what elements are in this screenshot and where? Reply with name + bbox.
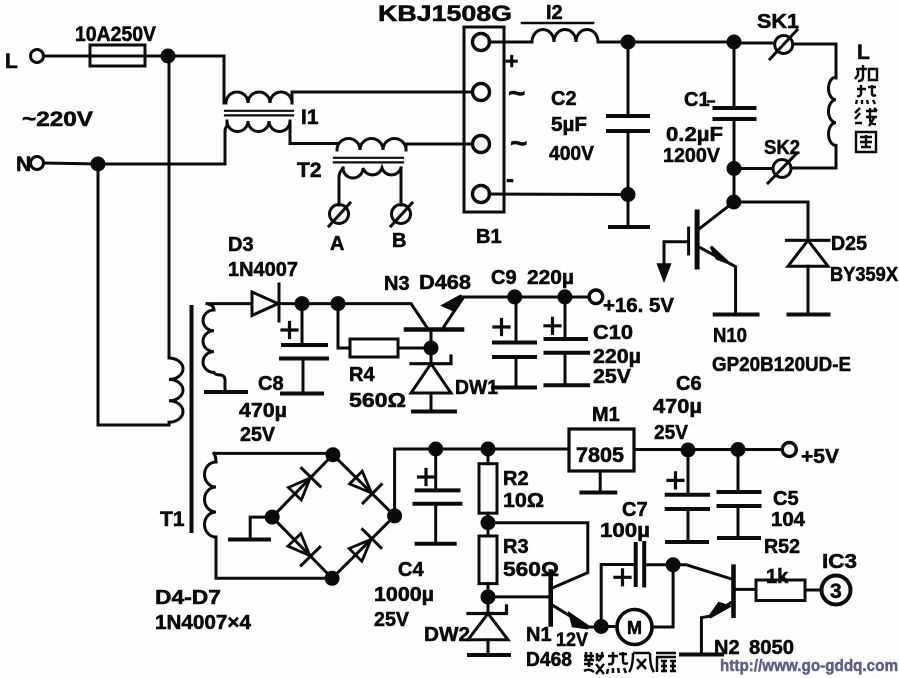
svg-text:10Ω: 10Ω bbox=[503, 490, 544, 512]
svg-text:C8: C8 bbox=[258, 373, 284, 395]
wire collector node to D25 bbox=[734, 202, 808, 240]
svg-text:BY359X: BY359X bbox=[830, 264, 899, 286]
svg-text:~: ~ bbox=[508, 77, 526, 110]
wire N junction down and right to T1 primary bottom bbox=[98, 164, 169, 425]
svg-text:IC3: IC3 bbox=[822, 551, 857, 573]
svg-text:D25: D25 bbox=[831, 233, 867, 255]
wire C1 node to SK1 bbox=[734, 42, 774, 45]
wire emitter to +16.5V rail bbox=[463, 296, 589, 299]
svg-text:470µ: 470µ bbox=[239, 400, 287, 422]
transformer T1 upper secondary winding bbox=[203, 304, 225, 389]
svg-text:N10: N10 bbox=[713, 325, 747, 347]
switch terminal SK2 bbox=[773, 160, 791, 178]
node bridge bottom bbox=[326, 572, 338, 584]
svg-text:T2: T2 bbox=[297, 159, 322, 182]
ground below C2 bbox=[627, 195, 630, 226]
svg-text:T1: T1 bbox=[160, 508, 185, 531]
node C8 top bbox=[296, 298, 308, 310]
node R2 top bbox=[482, 443, 494, 455]
svg-text:D4-D7: D4-D7 bbox=[155, 587, 221, 609]
node bridge right bbox=[389, 510, 401, 522]
svg-text:25V: 25V bbox=[240, 424, 276, 446]
svg-text:L: L bbox=[857, 41, 870, 64]
polarity plus of C6 bbox=[668, 473, 683, 488]
inductor I1 bottom winding bbox=[227, 121, 290, 132]
wire I2 to C2 node bbox=[598, 41, 628, 44]
wire C2 bottom to B1 minus bbox=[489, 193, 628, 197]
zener DW1 bbox=[430, 348, 433, 363]
svg-text:B: B bbox=[392, 230, 406, 252]
node fan bbox=[595, 621, 607, 633]
node C1 bottom / SK2 bbox=[728, 163, 740, 175]
wire SK2 to C1 bottom node bbox=[734, 167, 773, 170]
transistor N1 emitter with arrow bbox=[553, 605, 601, 627]
terminal B bbox=[392, 205, 411, 224]
fuse F 10A250V bbox=[90, 45, 145, 66]
terminal L bbox=[31, 50, 44, 63]
heating coil L bbox=[792, 77, 836, 168]
diode D25 BY359X bbox=[787, 239, 830, 242]
svg-text:~: ~ bbox=[510, 127, 528, 160]
terminal N bbox=[31, 157, 44, 170]
wire secondary bottom to bridge bottom bbox=[216, 577, 332, 580]
core T1 bbox=[190, 307, 194, 531]
node bridge top bbox=[327, 449, 339, 461]
node C4 bbox=[430, 443, 442, 455]
svg-text:C6: C6 bbox=[676, 373, 702, 395]
node C2 top bbox=[622, 36, 634, 48]
svg-text:M: M bbox=[627, 618, 642, 638]
svg-text:C1: C1 bbox=[684, 89, 710, 111]
node C7/N2 base bbox=[667, 559, 679, 571]
svg-text:12V: 12V bbox=[556, 630, 588, 651]
svg-text:1000µ: 1000µ bbox=[374, 584, 434, 606]
label cooling fan chinese bbox=[584, 652, 676, 674]
svg-text:1N4007: 1N4007 bbox=[228, 259, 298, 281]
terminal +5V bbox=[782, 443, 796, 457]
emitter rail bar of N10 bbox=[715, 313, 758, 317]
resistor R4 560ohm bbox=[350, 339, 398, 357]
svg-text:R52: R52 bbox=[764, 536, 800, 558]
resistor R2 10ohm bbox=[487, 449, 490, 464]
node R3/DW2/base bbox=[482, 591, 494, 603]
svg-text:N: N bbox=[16, 153, 31, 176]
transformer T2 bottom winding bbox=[343, 168, 401, 178]
node C2 bottom bbox=[622, 189, 634, 201]
svg-text:C2: C2 bbox=[551, 88, 577, 110]
svg-text:C5: C5 bbox=[773, 488, 799, 510]
svg-text:1200V: 1200V bbox=[663, 145, 721, 167]
svg-text:R2: R2 bbox=[503, 468, 529, 490]
svg-text:25V: 25V bbox=[374, 609, 410, 631]
bridge edge wires D4-D7 bbox=[272, 455, 394, 579]
svg-text:400V: 400V bbox=[549, 143, 595, 165]
node N junction bbox=[92, 158, 104, 170]
node bridge left bbox=[266, 511, 278, 523]
node R4/DW1/base bbox=[425, 342, 437, 354]
node N3 feed bbox=[332, 298, 344, 310]
svg-text:D3: D3 bbox=[228, 234, 254, 256]
wire T1 secondary to D3 bbox=[210, 302, 252, 305]
regulator M1 7805 bbox=[569, 429, 634, 471]
resistor R52 1k bbox=[756, 580, 805, 601]
transistor N2 collector lead bbox=[735, 588, 756, 591]
svg-text:+: + bbox=[505, 48, 518, 74]
transformer T1 lower secondary winding bbox=[205, 453, 216, 578]
svg-text:+16. 5V: +16. 5V bbox=[603, 295, 675, 317]
wire I1 bottom left end down to N wire bbox=[225, 121, 227, 164]
wire C1 bottom to collector node bbox=[733, 169, 736, 203]
core T2 bbox=[334, 157, 403, 159]
diode D5 (top-right edge) bbox=[347, 468, 382, 503]
ground below T1 upper secondary bbox=[206, 390, 246, 394]
svg-text:KBJ1508G: KBJ1508G bbox=[378, 1, 512, 26]
diode D7 (bottom-right edge) bbox=[346, 529, 381, 564]
pin + of B1 bbox=[473, 34, 490, 51]
svg-text:1k: 1k bbox=[766, 566, 789, 588]
svg-text:25V: 25V bbox=[593, 366, 632, 388]
svg-text:220µ: 220µ bbox=[527, 267, 574, 289]
pin ~ of B1 bbox=[473, 84, 490, 101]
transistor N1 D468 body bar bbox=[548, 572, 553, 625]
label tie C1 bbox=[708, 100, 714, 102]
svg-text:DW1: DW1 bbox=[455, 377, 498, 399]
svg-text:R3: R3 bbox=[503, 536, 529, 558]
terminal +16.5V bbox=[589, 290, 603, 304]
node IGBT collector bbox=[728, 196, 740, 208]
svg-text:L: L bbox=[5, 50, 18, 73]
wire C8 node to base node bbox=[302, 302, 338, 305]
svg-text:1N4007×4: 1N4007×4 bbox=[155, 612, 252, 634]
switch terminal SK1 bbox=[775, 36, 793, 54]
svg-text:104: 104 bbox=[771, 509, 806, 531]
polarity plus of C10 bbox=[545, 318, 560, 333]
wire bridge right up to rail bbox=[395, 449, 569, 516]
svg-text:C7: C7 bbox=[622, 499, 648, 521]
svg-text:SK1: SK1 bbox=[757, 11, 799, 33]
transformer T2 top winding bbox=[337, 139, 406, 150]
capacitor C4 1000u 25V bbox=[434, 449, 437, 490]
svg-text:470µ: 470µ bbox=[653, 396, 702, 418]
capacitor C10 220u 25V bbox=[564, 297, 567, 339]
core I1 bbox=[225, 110, 293, 112]
svg-text:GP20B120UD-E: GP20B120UD-E bbox=[712, 354, 851, 376]
svg-text:560Ω: 560Ω bbox=[349, 390, 406, 412]
svg-text:M1: M1 bbox=[592, 404, 620, 426]
wire T2 to terminal A bbox=[339, 168, 343, 205]
diode D6 (left-bottom edge) bbox=[285, 531, 320, 566]
svg-text:A: A bbox=[330, 233, 344, 255]
zener DW2 bbox=[487, 597, 490, 613]
wire junction to I1 top bbox=[168, 56, 224, 103]
label heating coil chinese (vertical) bbox=[855, 65, 877, 152]
inductor I2 bbox=[532, 29, 598, 42]
svg-text:-: - bbox=[506, 166, 514, 193]
svg-text:100µ: 100µ bbox=[600, 520, 650, 542]
svg-text:N1: N1 bbox=[526, 624, 552, 646]
wire N junction to I1 bottom bbox=[98, 163, 225, 166]
diode D3 1N4007 bbox=[252, 292, 278, 316]
core I2 line bbox=[522, 22, 593, 25]
wire I1 top to B1 bbox=[292, 92, 472, 103]
svg-text:N3: N3 bbox=[384, 273, 410, 295]
terminal IC3 pin 3 bbox=[822, 576, 851, 605]
wire T2 top to B1 bbox=[406, 144, 472, 150]
node R2/R3 bbox=[482, 517, 494, 529]
node C10 bbox=[559, 291, 571, 303]
svg-text:7805: 7805 bbox=[576, 444, 624, 467]
inductor I1 top winding bbox=[226, 92, 292, 103]
svg-text:5µF: 5µF bbox=[551, 114, 587, 136]
wire node to N3 collector bbox=[338, 304, 428, 329]
svg-text:560Ω: 560Ω bbox=[503, 559, 559, 581]
transistor N10 IGBT emitter lead bbox=[698, 247, 736, 314]
wire motor right to C7 right node bbox=[652, 570, 673, 627]
wire 7805 out to +5V bbox=[634, 448, 782, 451]
wire SK1 to heating coil bbox=[793, 44, 836, 78]
polarity plus of C7 bbox=[615, 570, 630, 585]
capacitor C8 470u 25V bbox=[301, 304, 304, 345]
svg-text:D468: D468 bbox=[419, 272, 471, 294]
terminal A bbox=[330, 205, 349, 224]
wire secondary top to bridge top bbox=[214, 452, 333, 455]
wire fuse junction down to T1 primary bbox=[168, 56, 171, 358]
svg-text:25V: 25V bbox=[654, 422, 689, 444]
transistor N2 8050 body bar bbox=[731, 567, 736, 616]
wire C2 node to C1 node bbox=[628, 41, 734, 44]
wire node to N2 base bbox=[673, 565, 731, 579]
svg-text:D468: D468 bbox=[526, 649, 572, 671]
pin ~ of B1 bbox=[473, 136, 490, 153]
transistor N3 D468 body bar bbox=[406, 327, 462, 332]
capacitor C5 104 bbox=[737, 450, 740, 493]
node C6 bbox=[682, 444, 694, 456]
svg-text:DW2: DW2 bbox=[424, 624, 470, 646]
wire gate with arrow bbox=[664, 242, 687, 266]
transistor N10 IGBT collector lead bbox=[699, 202, 734, 229]
wire T2 to terminal B bbox=[400, 168, 403, 205]
wire N to junction bbox=[44, 163, 98, 164]
svg-text:10A250V: 10A250V bbox=[75, 23, 156, 46]
polarity plus of C9 bbox=[494, 320, 509, 335]
node C5 bbox=[732, 444, 744, 456]
svg-text:SK2: SK2 bbox=[764, 137, 800, 159]
svg-text:http://www.go-gddq.com: http://www.go-gddq.com bbox=[720, 656, 898, 675]
wire R2/R3 node to N1 collector bbox=[488, 523, 588, 588]
resistor R3 560ohm bbox=[487, 523, 490, 536]
svg-text:C4: C4 bbox=[398, 559, 424, 581]
svg-text:3: 3 bbox=[830, 580, 842, 603]
diode D4 (left-top edge) bbox=[286, 468, 321, 503]
wire B1 plus to I2 bbox=[489, 41, 532, 44]
capacitor C9 220u bbox=[515, 297, 518, 342]
node fuse junction bbox=[162, 50, 174, 62]
capacitor C7 100u bbox=[601, 565, 635, 627]
pin - of B1 bbox=[473, 186, 490, 203]
transistor N10 IGBT body bar bbox=[695, 212, 700, 267]
bridge rectifier B1 KBJ1508G body bbox=[464, 27, 504, 212]
capacitor C6 470u 25V bbox=[687, 450, 690, 494]
polarity plus of C4 bbox=[419, 470, 434, 485]
transformer T1 primary winding bbox=[169, 358, 183, 425]
svg-text:I2: I2 bbox=[546, 2, 563, 24]
transistor N1 base lead bbox=[488, 595, 549, 598]
svg-text:B1: B1 bbox=[476, 226, 502, 248]
capacitor C2 bbox=[627, 42, 630, 116]
transistor N10 IGBT gate bar bbox=[687, 228, 690, 254]
svg-text:0.2µF: 0.2µF bbox=[666, 124, 723, 146]
polarity plus of C8 bbox=[282, 323, 297, 338]
wire L to fuse bbox=[44, 55, 90, 58]
svg-text:+5V: +5V bbox=[801, 446, 840, 468]
wire I1 bottom right to T2 bbox=[290, 121, 337, 144]
node C1 top bbox=[728, 36, 740, 48]
wire fuse to junction bbox=[145, 55, 168, 58]
svg-text:220µ: 220µ bbox=[593, 346, 641, 368]
transistor N3 base lead bbox=[430, 331, 433, 348]
transistor N3 emitter lead with arrow bbox=[443, 298, 463, 328]
svg-text:~220V: ~220V bbox=[22, 108, 93, 131]
transistor N2 emitter with arrow bbox=[701, 602, 732, 652]
wire base node down to R4 bbox=[338, 304, 350, 348]
svg-text:C9: C9 bbox=[491, 267, 517, 289]
ground at bridge left bbox=[250, 517, 272, 537]
svg-text:C10: C10 bbox=[593, 322, 633, 344]
node C9 bbox=[509, 291, 521, 303]
motor M fan bbox=[617, 610, 652, 645]
svg-text:R4: R4 bbox=[349, 364, 375, 386]
capacitor C1 bbox=[733, 42, 736, 108]
svg-text:I1: I1 bbox=[301, 106, 319, 129]
